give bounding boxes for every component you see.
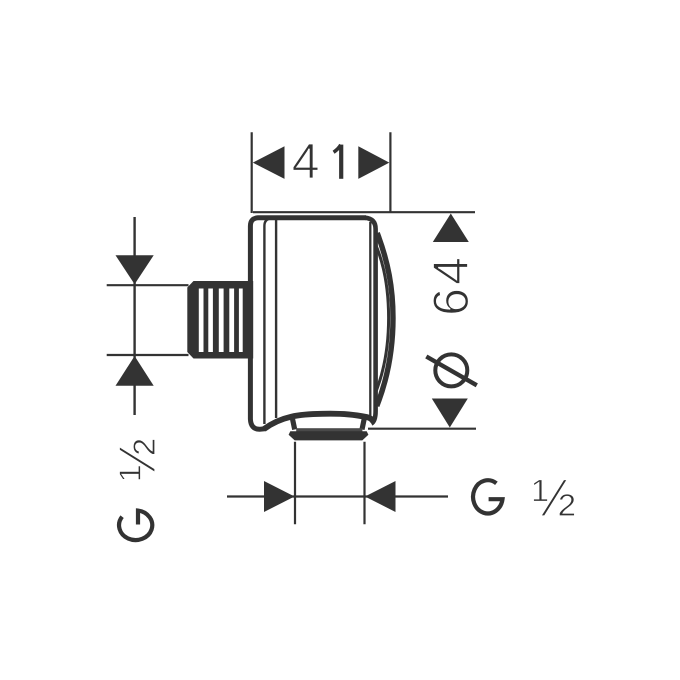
- right dim 64: bottom arrow (down): [432, 399, 468, 428]
- body bottom curve: [264, 414, 373, 429]
- outlet nut: [289, 431, 369, 440]
- dim 41: right extension line: [389, 132, 391, 212]
- bottom dim: dimension line: [227, 495, 448, 497]
- svg-text:½: ½: [532, 469, 576, 528]
- bottom dim: right arrow (left-pointing): [365, 481, 396, 512]
- svg-text:6: 6: [423, 288, 479, 316]
- right dim 64: bottom extension line: [368, 428, 476, 430]
- dim 41: left arrow: [253, 146, 285, 179]
- dim 41: right arrow: [358, 146, 389, 179]
- dome inner arc: [375, 244, 389, 394]
- threaded pipe: [187, 281, 253, 359]
- outlet collar left edge: [292, 416, 295, 430]
- right dim 64: top extension line: [253, 211, 475, 213]
- left dim: vertical line: [133, 217, 135, 415]
- outlet collar ring: [296, 428, 362, 431]
- left dim: top tick: [107, 284, 189, 286]
- left dim: label G (rotated): [119, 511, 152, 540]
- bottom dim: label G: [473, 480, 502, 513]
- dome outer arc: [377, 233, 393, 406]
- svg-text:½: ½: [109, 438, 167, 481]
- body outline: flange left edge, top edge, bottom-left corner: [250, 218, 366, 429]
- svg-text:4: 4: [423, 257, 479, 285]
- left dim: top arrow (down): [116, 255, 154, 284]
- left dim: bottom tick: [107, 354, 189, 356]
- body right rim line: [365, 218, 376, 424]
- dim 41: left extension line: [251, 132, 253, 213]
- right dim 64: top arrow (up): [433, 214, 469, 243]
- bottom dim: left extension line: [294, 442, 296, 525]
- front face line left: [275, 219, 277, 419]
- right dim 64: diameter symbol slash: [426, 357, 477, 386]
- right dim 64: diameter symbol circle: [435, 354, 467, 386]
- bottom dim: right extension line: [363, 442, 365, 525]
- svg-text:4: 4: [292, 133, 320, 189]
- flange inner edge line: [264, 219, 271, 424]
- front face line right: [369, 222, 371, 416]
- left dim: bottom arrow (up): [116, 356, 154, 386]
- thread stripes: [199, 289, 243, 353]
- outlet collar right edge: [362, 416, 365, 430]
- bottom dim: left arrow (right-pointing): [264, 481, 295, 512]
- dim 41: text 1 (custom, no foot serif): [339, 145, 343, 179]
